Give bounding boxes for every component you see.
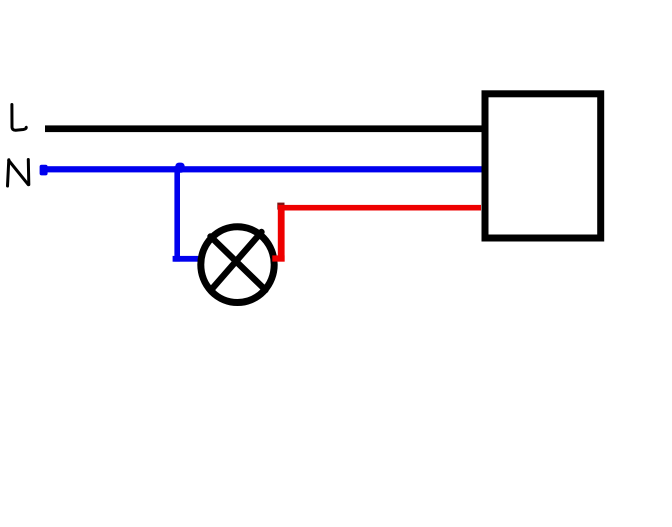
wire blue vertical drop xyxy=(174,166,180,261)
lamp E1 circle xyxy=(201,227,274,303)
node junction dot blue xyxy=(175,163,184,173)
label N (neutral) xyxy=(8,160,29,187)
wire red horizontal to box xyxy=(278,205,481,211)
wire L black horizontal xyxy=(45,125,488,132)
wire start nub dark red xyxy=(277,203,284,210)
switch box xyxy=(485,94,601,238)
wire blue bottom horizontal to lamp xyxy=(173,256,201,262)
wire red vertical rise xyxy=(278,205,285,262)
wire red bottom stub from lamp xyxy=(272,255,284,261)
label L (line/live) xyxy=(12,105,26,131)
wire start nub blue xyxy=(40,165,48,176)
lamp cross stroke 1 xyxy=(211,237,266,291)
wire N blue horizontal xyxy=(41,166,488,172)
lamp cross stroke 2 xyxy=(211,232,262,290)
